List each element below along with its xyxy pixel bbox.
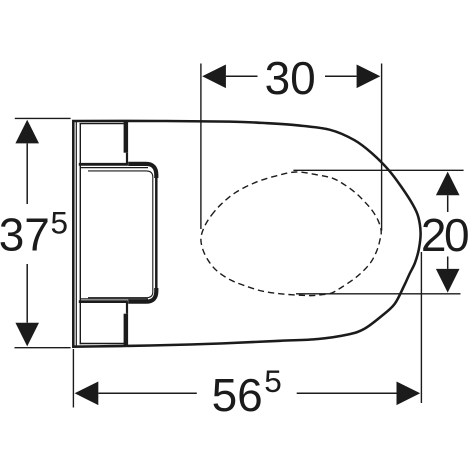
svg-text:5: 5: [264, 363, 282, 399]
svg-text:30: 30: [265, 52, 316, 104]
svg-text:56: 56: [212, 369, 263, 421]
svg-text:37: 37: [0, 208, 50, 260]
svg-text:5: 5: [51, 205, 69, 241]
svg-text:20: 20: [421, 209, 468, 261]
